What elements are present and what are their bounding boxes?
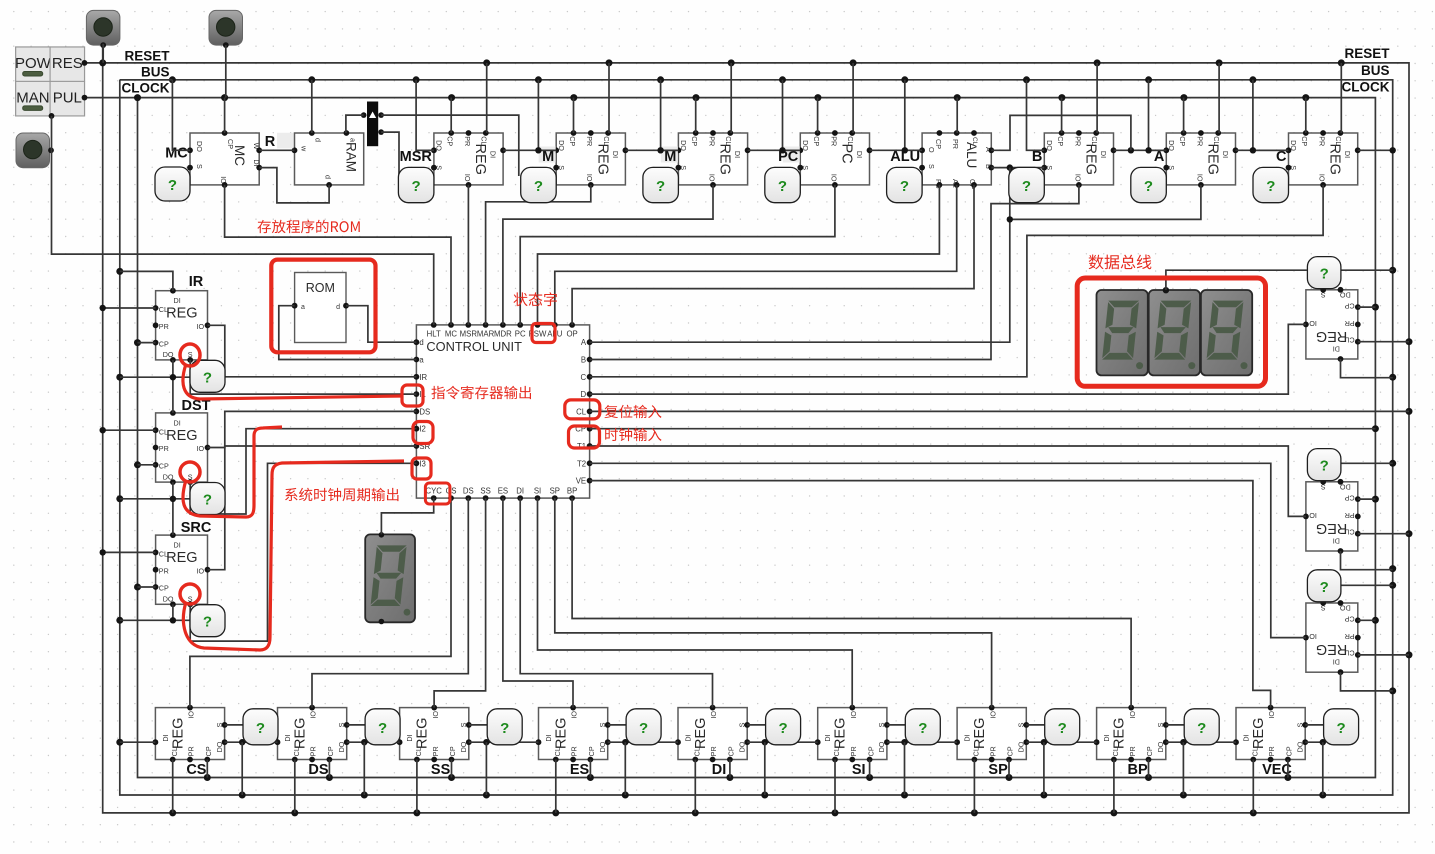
probe C display	[1253, 167, 1289, 202]
svg-text:CP: CP	[587, 746, 596, 756]
wire MC DO to BUS	[120, 80, 190, 151]
svg-text:CP: CP	[226, 139, 235, 149]
svg-text:DI: DI	[174, 296, 181, 305]
wire SRC S to CU I3	[190, 463, 416, 641]
wire MSR IO to CU MSR	[467, 185, 469, 325]
register SP	[954, 705, 1029, 763]
svg-text:IO: IO	[709, 711, 718, 719]
annotation text 时钟输入	[605, 428, 661, 441]
svg-text:ALU: ALU	[964, 142, 979, 168]
svg-text:ES: ES	[498, 487, 508, 496]
svg-text:?: ?	[1144, 178, 1153, 195]
wire A IO to CU A	[590, 168, 1201, 343]
svg-text:MSR: MSR	[460, 329, 478, 338]
svg-text:O: O	[927, 147, 936, 153]
svg-text:DI: DI	[405, 734, 414, 741]
wire CU T1 to reg R2 IO	[590, 446, 1306, 516]
svg-text:IO: IO	[1309, 511, 1317, 520]
wire B IO to CU B	[590, 185, 1079, 360]
svg-text:DI: DI	[1333, 345, 1340, 354]
svg-text:d: d	[419, 338, 423, 347]
wires bottom row chain and rail stubs	[120, 725, 1326, 813]
svg-text:?: ?	[1197, 720, 1206, 737]
wire DST CP	[138, 464, 156, 466]
svg-text:?: ?	[1058, 720, 1067, 737]
svg-text:IO: IO	[1309, 319, 1317, 328]
register C (C)	[1286, 130, 1361, 188]
svg-text:DI: DI	[544, 734, 553, 741]
annotation I3 box	[412, 458, 431, 479]
svg-text:CP: CP	[159, 339, 169, 348]
annotation display box	[1077, 278, 1265, 386]
svg-text:CP: CP	[1344, 493, 1354, 502]
net label RESET left	[124, 49, 170, 64]
probe SRC display	[190, 605, 225, 637]
svg-text:CP: CP	[326, 746, 335, 756]
annotation red trace I1	[183, 364, 402, 399]
7-segment display CYC	[365, 532, 415, 624]
wire CU SI to SI IO	[538, 498, 853, 707]
svg-text:DI: DI	[1221, 151, 1230, 158]
svg-text:DI: DI	[733, 151, 742, 158]
svg-text:DI: DI	[963, 734, 972, 741]
wire SRC DO to BUS	[120, 604, 190, 623]
register B (B)	[1041, 130, 1116, 188]
svg-text:PR: PR	[585, 136, 594, 146]
svg-text:SP: SP	[550, 487, 560, 496]
svg-text:DI: DI	[684, 734, 693, 741]
svg-text:MC: MC	[445, 329, 457, 338]
svg-text:IO: IO	[197, 566, 205, 575]
register R3 (right col)	[1303, 600, 1361, 675]
svg-text:BUS: BUS	[1361, 63, 1390, 78]
register A (A)	[1163, 130, 1238, 188]
wire PC EN to CU PC	[520, 185, 835, 325]
svg-text:DI: DI	[174, 541, 181, 550]
annotation DST S circle	[180, 462, 200, 482]
svg-text:PR: PR	[1267, 746, 1276, 756]
wire CU SS to SS IO	[434, 498, 486, 707]
svg-text:IO: IO	[707, 174, 716, 182]
probe PC display	[765, 167, 801, 202]
register R2 (right col)	[1303, 479, 1361, 554]
wire CU D to reg R1 IO	[590, 324, 1306, 394]
svg-text:CP: CP	[1344, 615, 1354, 624]
wire IR CP	[138, 342, 156, 344]
wire R2 probe to BUS	[1340, 462, 1392, 464]
svg-text:IO: IO	[309, 711, 318, 719]
svg-text:MAR: MAR	[477, 329, 495, 338]
register SS	[397, 705, 472, 763]
svg-text:REG: REG	[293, 718, 309, 749]
svg-text:DI: DI	[516, 487, 524, 496]
register VEC	[1233, 705, 1308, 763]
wire C IO to CU C	[590, 185, 1324, 377]
svg-text:?: ?	[656, 178, 665, 195]
svg-text:SRC: SRC	[181, 520, 212, 536]
wire BUS tap to IR DI	[120, 271, 173, 290]
svg-text:REG: REG	[1316, 641, 1347, 657]
svg-text:CP: CP	[1178, 136, 1187, 146]
annotation IR S circle	[180, 344, 200, 366]
wires top DO-to-BUS stubs	[416, 80, 1288, 151]
net label CLOCK right	[1342, 80, 1390, 95]
svg-text:MSR: MSR	[400, 149, 433, 165]
svg-text:REG: REG	[166, 306, 197, 322]
svg-text:CP: CP	[448, 746, 457, 756]
probe VEC display	[1324, 709, 1359, 745]
svg-text:CP: CP	[1145, 746, 1154, 756]
probe R3 display	[1307, 570, 1341, 602]
annotation I2 box	[413, 422, 433, 444]
svg-text:REG: REG	[1327, 144, 1343, 175]
wire ALU A over B reg	[991, 115, 1131, 150]
wires top CL/CP stubs	[451, 63, 1341, 133]
control panel POW/RES/MAN/PUL	[15, 47, 87, 119]
svg-text:REG: REG	[554, 718, 570, 749]
svg-text:CP: CP	[1285, 746, 1294, 756]
annotation red trace I2	[183, 427, 282, 517]
wire MC W to RAM w	[259, 149, 294, 151]
svg-text:PR: PR	[1195, 136, 1204, 146]
svg-text:REG: REG	[1112, 718, 1128, 749]
annotation I1 box	[402, 385, 423, 406]
probe M2 display	[643, 167, 679, 202]
svg-text:CP: CP	[1056, 136, 1065, 146]
wire MAN to CU HLT	[52, 116, 434, 325]
svg-text:PR: PR	[159, 322, 169, 331]
svg-text:PR: PR	[431, 746, 440, 756]
svg-text:DI: DI	[283, 734, 292, 741]
svg-text:?: ?	[203, 492, 212, 509]
probe R1 display	[1307, 257, 1341, 289]
svg-text:d: d	[314, 138, 323, 142]
svg-text:REG: REG	[170, 718, 186, 749]
label M	[661, 147, 678, 166]
svg-text:A: A	[581, 338, 587, 347]
svg-text:MAN: MAN	[16, 89, 49, 106]
label C	[1276, 149, 1287, 165]
register PC (PC)	[797, 130, 872, 188]
label PC	[778, 147, 800, 166]
svg-text:SI: SI	[534, 487, 541, 496]
label ALU	[890, 149, 920, 165]
svg-text:?: ?	[168, 177, 177, 194]
label M	[539, 147, 556, 166]
svg-text:IO: IO	[849, 711, 858, 719]
svg-text:CP: CP	[159, 462, 169, 471]
wire ALU B to B reg S	[991, 164, 1044, 170]
svg-text:VE: VE	[576, 477, 586, 486]
svg-text:?: ?	[1022, 178, 1031, 195]
wire DST DO to SRC DI	[120, 482, 190, 535]
wire ROM a to CU a	[279, 306, 417, 360]
label ES	[570, 762, 590, 778]
svg-text:a: a	[349, 138, 358, 142]
label VEC	[1262, 762, 1292, 778]
wire SRC CP	[138, 586, 156, 588]
register CS	[153, 705, 228, 763]
wire ALU PR to CLOCK	[956, 98, 958, 133]
svg-text:CS: CS	[186, 762, 206, 778]
register BP	[1094, 705, 1169, 763]
svg-text:PR: PR	[1073, 136, 1082, 146]
probe MC	[155, 167, 190, 201]
svg-text:PR: PR	[463, 136, 472, 146]
svg-text:IO: IO	[1195, 174, 1204, 182]
probe DS display	[365, 709, 400, 745]
wire SRC CL	[100, 549, 156, 555]
register SRC	[153, 532, 211, 607]
svg-text:SS: SS	[431, 762, 451, 778]
wire M2 IO to CU MDR	[503, 185, 713, 325]
svg-text:DS: DS	[463, 487, 474, 496]
svg-text:DI: DI	[1242, 734, 1251, 741]
svg-text:REG: REG	[166, 428, 197, 444]
svg-text:B: B	[1032, 149, 1042, 165]
wire bus driver to M probe	[381, 115, 519, 176]
svg-text:CP: CP	[866, 746, 875, 756]
probe SP display	[1045, 709, 1080, 745]
wire M IO to CU MAR	[486, 185, 591, 325]
annotation PSW box	[532, 324, 555, 343]
wires reg R1 CP/CL/DI	[1341, 307, 1410, 378]
svg-text:REG: REG	[717, 144, 733, 175]
register MC	[187, 130, 262, 188]
svg-text:MC: MC	[165, 146, 188, 162]
svg-text:a: a	[301, 304, 305, 311]
wire display probe to BUS	[1166, 270, 1393, 290]
svg-text:C: C	[1276, 149, 1287, 165]
svg-text:CP: CP	[1006, 746, 1015, 756]
annotation text 复位输入	[604, 405, 661, 418]
svg-text:PR: PR	[1345, 632, 1355, 641]
wire CU CL to RESET	[590, 410, 1409, 412]
svg-text:DI: DI	[611, 151, 620, 158]
svg-text:IO: IO	[197, 322, 205, 331]
svg-text:d: d	[324, 175, 333, 179]
svg-text:PR: PR	[159, 444, 169, 453]
register R1 (right col)	[1303, 287, 1361, 362]
annotation CL box	[565, 400, 600, 419]
svg-text:PR: PR	[1345, 319, 1355, 328]
wires top DI-DO chain	[503, 147, 1396, 153]
wire ALU OP to CU OP	[572, 185, 974, 325]
svg-text:REG: REG	[1083, 144, 1099, 175]
register MSR (MSR)	[431, 130, 506, 188]
svg-text:PR: PR	[707, 136, 716, 146]
svg-text:DS: DS	[419, 407, 430, 416]
svg-text:DI: DI	[1099, 151, 1108, 158]
svg-text:REG: REG	[1251, 718, 1267, 749]
svg-text:?: ?	[639, 720, 648, 737]
svg-text:RESET: RESET	[124, 49, 170, 64]
svg-text:CP: CP	[568, 136, 577, 146]
label SS	[431, 762, 451, 778]
svg-text:IO: IO	[197, 444, 205, 453]
register DI	[675, 705, 750, 763]
label R (tunnel)	[265, 133, 294, 150]
svg-text:?: ?	[1320, 266, 1329, 283]
label DS	[308, 762, 328, 778]
svg-text:?: ?	[778, 178, 787, 195]
wire MC DI to RAM d	[259, 168, 329, 203]
wire CU ES to ES IO	[503, 498, 573, 707]
svg-text:CP: CP	[1300, 136, 1309, 146]
annotation text 存放程序的ROM	[257, 220, 359, 233]
svg-text:DI: DI	[712, 762, 727, 778]
wire RAM a to bus driver	[346, 115, 364, 133]
svg-text:B: B	[581, 356, 586, 365]
probe B display	[1009, 167, 1045, 202]
wires reg R2 CP/CL/DI	[1341, 499, 1410, 570]
wire R3 probe to BUS	[1340, 584, 1392, 586]
svg-text:CP: CP	[727, 746, 736, 756]
svg-text:PR: PR	[159, 566, 169, 575]
svg-text:CYC: CYC	[425, 487, 442, 496]
svg-text:?: ?	[918, 720, 927, 737]
annotation text 状态字	[513, 292, 556, 306]
probe SS display	[487, 709, 522, 745]
label SI	[852, 762, 866, 778]
svg-text:ROM: ROM	[306, 281, 335, 295]
svg-text:REG: REG	[415, 718, 431, 749]
wire CU CP to CLOCK	[590, 428, 1376, 430]
svg-text:PR: PR	[951, 139, 960, 149]
wire IR S to CU I1	[190, 360, 416, 394]
svg-text:IO: IO	[1309, 632, 1317, 641]
annotation CYC box	[425, 483, 450, 504]
probe R2 display	[1307, 449, 1341, 481]
label SRC	[181, 520, 212, 536]
svg-text:PR: PR	[1318, 136, 1327, 146]
annotation ROM box	[271, 260, 375, 353]
wire bus driver to MSR probe	[381, 132, 399, 176]
svg-text:?: ?	[1320, 458, 1329, 475]
probe DI display	[766, 709, 801, 745]
wire ALU AL to CU ALU	[555, 185, 957, 325]
svg-text:PC: PC	[839, 144, 855, 164]
svg-text:BUS: BUS	[141, 65, 170, 80]
svg-text:DI: DI	[489, 151, 498, 158]
svg-text:CL: CL	[576, 407, 587, 416]
label BP	[1128, 762, 1148, 778]
svg-text:?: ?	[378, 720, 387, 737]
annotation CP box	[569, 426, 600, 448]
svg-text:PR: PR	[570, 746, 579, 756]
push button B3	[16, 133, 54, 168]
svg-text:?: ?	[203, 369, 212, 386]
svg-text:PUL: PUL	[53, 89, 82, 106]
svg-text:REG: REG	[166, 550, 197, 566]
svg-text:?: ?	[1266, 178, 1275, 195]
svg-text:I3: I3	[419, 459, 426, 468]
svg-text:?: ?	[534, 178, 543, 195]
svg-text:PR: PR	[1345, 511, 1355, 520]
memory ROM	[292, 273, 349, 343]
svg-text:OP: OP	[566, 329, 577, 338]
svg-text:REG: REG	[1316, 328, 1347, 344]
probe ES display	[626, 709, 661, 745]
net label BUS right	[1361, 63, 1390, 78]
register IR	[153, 288, 211, 363]
annotation SRC S circle	[180, 584, 200, 604]
probe DST display	[190, 483, 225, 515]
annotation text 系统时钟周期输出	[285, 488, 398, 501]
wire CU CS to CS IO	[190, 498, 451, 707]
bus driver (black)	[361, 102, 384, 147]
svg-text:DI: DI	[1333, 658, 1340, 667]
label SP	[988, 762, 1008, 778]
svg-text:CLOCK: CLOCK	[122, 81, 170, 96]
svg-text:C: C	[580, 373, 586, 382]
svg-text:CP: CP	[1344, 301, 1354, 310]
push button B1	[86, 10, 120, 48]
svg-text:A: A	[1154, 149, 1165, 165]
svg-text:PC: PC	[515, 329, 526, 338]
svg-text:REG: REG	[972, 718, 988, 749]
wire CU BP to BP IO	[572, 498, 1131, 707]
svg-text:?: ?	[203, 614, 212, 631]
wire CU VE to VEC IO	[590, 481, 1271, 708]
svg-text:DI: DI	[1102, 734, 1111, 741]
svg-text:PR: PR	[988, 746, 997, 756]
wire CU DI to DI IO	[520, 498, 712, 707]
annotation text 指令寄存器输出	[431, 386, 531, 399]
svg-text:a: a	[419, 356, 424, 365]
probe A display	[1131, 167, 1167, 202]
wire IR IO to CU IR	[208, 325, 417, 377]
svg-text:?: ?	[1337, 720, 1346, 737]
svg-text:DI: DI	[1343, 151, 1352, 158]
svg-text:REG: REG	[472, 144, 488, 175]
svg-text:RES: RES	[52, 55, 83, 72]
svg-text:SS: SS	[480, 487, 490, 496]
probe MSR display	[398, 167, 434, 202]
register SI	[815, 705, 890, 763]
svg-text:IO: IO	[1318, 174, 1327, 182]
svg-text:?: ?	[500, 720, 509, 737]
svg-text:CLOCK: CLOCK	[1342, 80, 1390, 95]
svg-text:CL: CL	[971, 137, 978, 146]
svg-text:IO: IO	[463, 174, 472, 182]
label A	[1154, 149, 1165, 165]
svg-text:REG: REG	[833, 718, 849, 749]
register ES	[536, 705, 611, 763]
svg-text:?: ?	[900, 178, 909, 195]
wire MC IO to CU MC	[225, 185, 451, 325]
svg-text:DI: DI	[174, 418, 181, 427]
svg-text:?: ?	[412, 178, 421, 195]
wire RAM d to BUS	[311, 80, 313, 133]
probe IR display	[190, 360, 225, 392]
svg-text:REG: REG	[1316, 520, 1347, 536]
svg-text:IR: IR	[419, 373, 427, 382]
svg-text:T2: T2	[577, 459, 586, 468]
svg-text:IO: IO	[1073, 174, 1082, 182]
net label RESET right	[1344, 46, 1390, 61]
wire BUS rail	[116, 76, 1396, 798]
wire DST S to CU I2	[190, 429, 416, 514]
register DS	[275, 705, 350, 763]
wire CU CYC to 7-seg	[381, 498, 433, 534]
svg-text:D: D	[580, 390, 586, 399]
svg-text:IO: IO	[1267, 711, 1276, 719]
annotation red trace I3	[183, 461, 404, 650]
svg-text:IO: IO	[585, 174, 594, 182]
svg-text:IR: IR	[189, 274, 204, 290]
wire button B1 to RESET	[102, 44, 104, 63]
